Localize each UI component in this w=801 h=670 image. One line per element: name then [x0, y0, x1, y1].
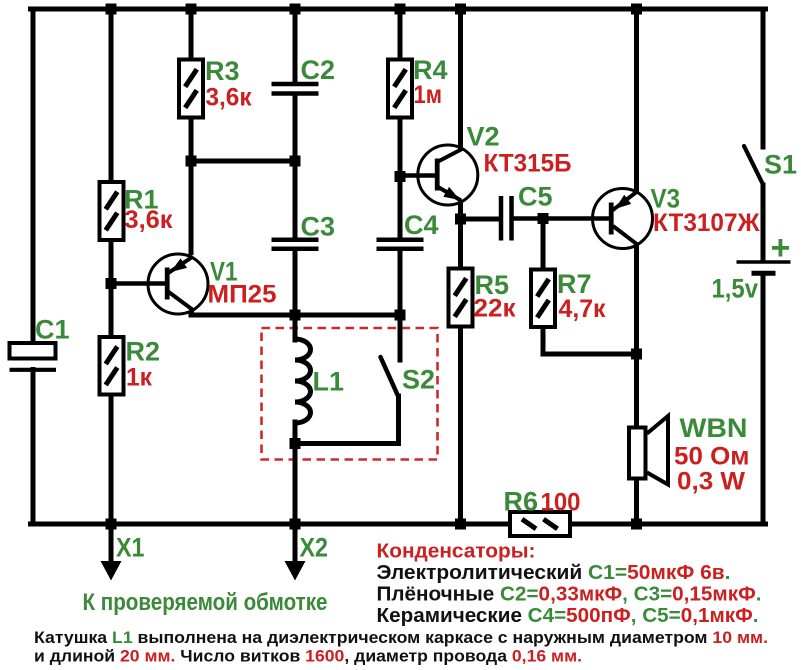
terminal X1 arrow [101, 524, 122, 581]
svg-text:R3: R3 [205, 56, 240, 86]
wire R4 to C4 through V2 base node [398, 117, 403, 238]
svg-text:1м: 1м [414, 81, 443, 109]
wire top supply rail [31, 7, 766, 12]
label S1 [764, 150, 797, 180]
transistor V2 [400, 145, 478, 205]
label battery plus [771, 229, 791, 267]
wire V3 emitter vertical to top rail [634, 9, 639, 193]
svg-text:X2: X2 [300, 533, 329, 563]
junction node speaker/bottom rail [631, 519, 642, 530]
note line Электролитический C1 [377, 562, 731, 584]
svg-text:V2: V2 [467, 122, 500, 152]
svg-text:и длиной 20 мм. Число витков 1: и длиной 20 мм. Число витков 1600, диаме… [34, 647, 582, 666]
wire top rail to R4 [398, 9, 403, 60]
junction node top-R4 [395, 4, 406, 15]
label V3 [651, 184, 681, 214]
label R4 value 1м [414, 81, 443, 109]
speaker BA1 (WBN) [629, 416, 668, 485]
svg-text:К проверяемой обмотке: К проверяемой обмотке [83, 589, 328, 616]
battery GB1 negative short plate [752, 271, 776, 276]
junction node top-C2 [290, 4, 301, 15]
switch S1 blade [744, 146, 764, 186]
svg-text:1,5v: 1,5v [712, 274, 759, 304]
svg-text:C2: C2 [301, 55, 336, 85]
svg-text:КТ315Б: КТ315Б [484, 150, 572, 178]
label R1 value 3,6к [125, 206, 173, 234]
capacitor C1 bottom plate [10, 368, 57, 372]
svg-text:4,7к: 4,7к [559, 295, 606, 323]
wire right border battery-to-bottom [761, 275, 766, 525]
label R6 [504, 487, 539, 517]
svg-text:Плёночные С2=0,33мкФ, С3=0,15м: Плёночные С2=0,33мкФ, С3=0,15мкФ. [377, 584, 762, 606]
wire V3 collector down to speaker [634, 245, 639, 428]
label speaker 0,3 W [677, 468, 745, 496]
resistor R5 [449, 269, 473, 327]
junction node A (R1/R2/V1 base) [106, 278, 117, 289]
label C5 [518, 182, 553, 212]
wire R3 to node B [189, 117, 194, 161]
svg-text:50 Ом: 50 Ом [674, 443, 750, 471]
transistor V3 [593, 189, 653, 249]
junction node top-V3E [631, 4, 642, 15]
label V2 type КТ315Б [484, 150, 572, 178]
resistor R1 [100, 182, 124, 240]
capacitor C5 plates [501, 196, 512, 241]
resistor R4 [388, 60, 412, 118]
svg-text:C1: C1 [35, 315, 70, 345]
label V1 [210, 257, 238, 287]
resistor R7 [531, 270, 555, 328]
svg-text:МП25: МП25 [208, 281, 277, 309]
wire V2 emitter to node C [458, 202, 463, 222]
wire R7 node down to R7 [541, 219, 546, 271]
wire left border lower (C1 to bottom rail) [31, 370, 36, 525]
capacitor C1 (electrolytic) top plate rectangle [10, 343, 56, 359]
label V2 [467, 122, 500, 152]
wire C4 to y315 node [398, 250, 403, 315]
wire node C down to R5 [458, 219, 463, 269]
junction node C2/C3 [290, 156, 301, 167]
label L1 [313, 367, 345, 397]
label R2 [126, 337, 161, 367]
svg-text:0,3 W: 0,3 W [677, 468, 745, 496]
label C3 [301, 212, 336, 242]
wire right border upper (to S1) [761, 9, 766, 150]
label X1 [116, 533, 145, 563]
junction node C (V2e/R5/C5) [455, 214, 466, 225]
wire V1 base horizontal [111, 281, 166, 286]
wire R5 to bottom rail [458, 326, 463, 524]
label S2 [402, 365, 435, 395]
note line Конденсаторы: [377, 541, 536, 563]
svg-text:L1: L1 [313, 367, 345, 397]
wire left border upper (to C1) [31, 9, 36, 344]
label C2 [301, 55, 336, 85]
note line Катушка L1 (line 2) [34, 647, 582, 666]
wire V1 collector to y315 rail [189, 308, 194, 318]
junction node L1/S2 bottom [290, 438, 301, 449]
wire C5 to V3 base (through R7 node) [514, 216, 609, 221]
svg-text:Конденсаторы:: Конденсаторы: [377, 541, 536, 563]
capacitor C2 plates [272, 84, 319, 94]
svg-text:C4: C4 [404, 210, 439, 240]
wire R7 bottom elbow [543, 326, 637, 354]
label R4 [413, 55, 448, 85]
label V1 type МП25 [208, 281, 277, 309]
junction node B (R3/V1e) [186, 156, 197, 167]
svg-text:Электролитический С1=50мкФ 6в.: Электролитический С1=50мкФ 6в. [377, 562, 731, 584]
svg-text:C5: C5 [518, 182, 553, 212]
L1/S2 probe dashed outline box [262, 328, 438, 460]
svg-text:100: 100 [541, 489, 581, 517]
label C4 [404, 210, 439, 240]
junction node C3/L1 [290, 310, 301, 321]
wire R2 to bottom rail [109, 394, 114, 524]
label X2 [300, 533, 329, 563]
junction node X2 [290, 519, 301, 530]
wire node C to C5 [461, 217, 500, 222]
wire right border S1-to-battery [761, 185, 766, 261]
svg-text:WBN: WBN [680, 413, 748, 443]
wire top rail to C2 [293, 9, 298, 82]
junction node R5/bottom rail [455, 519, 466, 530]
junction node top-R3 [186, 4, 197, 15]
label V3 type КТ3107Ж [653, 209, 760, 237]
wire bottom rail right segment [569, 522, 766, 527]
wire R1 to R2 through base node [109, 240, 114, 337]
resistor R2 [100, 337, 124, 395]
wire V2 collector vertical [458, 9, 463, 150]
junction node X1 [106, 519, 117, 530]
capacitor C3 plates [272, 240, 319, 249]
wire y315 horizontal (V1 collector to C4/S2 node) [191, 313, 400, 318]
label C1 [35, 315, 70, 345]
label R2 value 1к [126, 364, 152, 392]
svg-text:+: + [771, 229, 791, 267]
switch S2 [295, 315, 400, 444]
battery GB1 positive long plate [737, 260, 791, 264]
svg-text:22к: 22к [474, 295, 516, 323]
label R6 value 100 [541, 489, 581, 517]
capacitor C4 plates [377, 240, 424, 249]
label R1 [124, 185, 159, 215]
junction node D (C5/R7/V3 base) [538, 213, 549, 224]
note line Катушка L1 (line 1) [34, 628, 768, 647]
label speaker 50 Ом [674, 443, 750, 471]
resistor R3 [179, 60, 203, 118]
svg-text:S1: S1 [764, 150, 797, 180]
label battery 1,5v [712, 274, 759, 304]
wire C2 to C3 through node [293, 96, 298, 239]
label R3 [205, 56, 240, 86]
svg-text:R2: R2 [126, 337, 161, 367]
svg-text:3,6к: 3,6к [125, 206, 173, 234]
wire speaker to bottom rail [634, 478, 639, 524]
svg-text:КТ3107Ж: КТ3107Ж [653, 209, 760, 237]
label R7 value 4,7к [559, 295, 606, 323]
wire top rail to R3 [189, 9, 194, 60]
svg-text:1к: 1к [126, 364, 152, 392]
svg-text:R6: R6 [504, 487, 539, 517]
wire C3 to L1 node [293, 250, 298, 315]
svg-text:Катушка L1 выполнена на диэлек: Катушка L1 выполнена на диэлектрическом … [34, 628, 768, 647]
svg-text:X1: X1 [116, 533, 145, 563]
label К проверяемой обмотке [83, 589, 328, 616]
terminal X2 arrow [285, 524, 306, 581]
inductor L1 [295, 315, 311, 444]
wire bottom rail left segment [31, 522, 512, 527]
transistor V1 [148, 254, 208, 314]
label R3 value 3,6к [206, 84, 252, 112]
resistor R6 (horizontal) [510, 512, 570, 536]
junction node top-R1 [106, 4, 117, 15]
svg-text:S2: S2 [402, 365, 435, 395]
svg-text:Керамические С4=500пФ, С5=0,1м: Керамические С4=500пФ, С5=0,1мкФ. [377, 605, 759, 627]
svg-text:3,6к: 3,6к [206, 84, 252, 112]
label WBN [680, 413, 748, 443]
note line Керамические C4 C5 [377, 605, 759, 627]
junction node R4/V2 base [395, 171, 406, 182]
junction node C4/S2 [395, 310, 406, 321]
note line Плёночные C2 C3 [377, 584, 762, 606]
wire node-A vertical: top rail to R1 [109, 9, 114, 182]
svg-text:C3: C3 [301, 212, 336, 242]
wire node B horizontal (R3 to C2 branch) [191, 159, 295, 164]
junction node V3c/R7/speaker [631, 349, 642, 360]
wire V1 emitter vertical (node B down to V1) [189, 161, 194, 255]
wire L1 bottom to bottom rail and X2 [293, 444, 298, 524]
label R7 [557, 269, 592, 299]
junction node top-V2C [455, 4, 466, 15]
label R5 value 22к [474, 295, 516, 323]
label R5 [475, 270, 510, 300]
